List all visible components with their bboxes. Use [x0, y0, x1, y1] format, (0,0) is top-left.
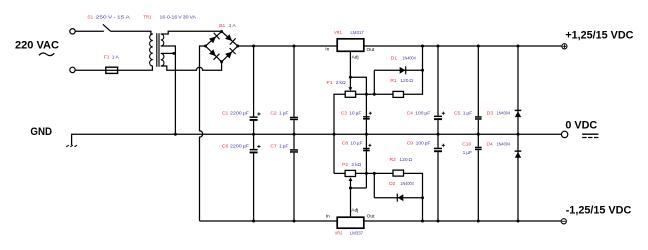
pin label Out (VR2) [367, 214, 375, 220]
terminal: 220 VAC line input N [70, 67, 75, 72]
label R2 120ohm [390, 157, 413, 163]
capacitor C7 [290, 134, 298, 221]
svg-text:D1: D1 [391, 56, 398, 62]
wire: VR1 Adj stem [349, 51, 351, 77]
capacitor C6 [250, 134, 261, 221]
svg-text:C3: C3 [341, 110, 348, 116]
wire: positive rail VR1 Out to + terminal [364, 45, 562, 47]
svg-text:1 µF: 1 µF [463, 150, 473, 156]
svg-text:Out: Out [367, 214, 375, 220]
svg-text:220 VAC: 220 VAC [15, 39, 59, 51]
svg-text:100 µF: 100 µF [415, 111, 430, 117]
resistor R2 [393, 170, 404, 176]
fuse F1 [106, 67, 118, 73]
label B1 1A [219, 23, 236, 29]
svg-text:TR1: TR1 [143, 15, 151, 21]
svg-text:D2: D2 [389, 181, 396, 187]
wire: bridge minus output down to negative rail (hop over GND rail) [200, 46, 206, 221]
transformer TR1 [150, 33, 164, 67]
label P2 2k [342, 162, 361, 168]
junction: C1 top [252, 45, 255, 48]
diode D2 [397, 194, 403, 202]
svg-text:Adj: Adj [351, 207, 358, 213]
junction: C9 bottom [437, 220, 440, 223]
svg-text:2 kΩ: 2 kΩ [351, 162, 361, 168]
junction: D1/R1 top [421, 45, 424, 48]
op-amp-style regulator VR2 LM337 [337, 217, 364, 228]
junction: C2/C7 at GND [293, 133, 296, 136]
pin label In (VR2) [326, 214, 330, 220]
pin label Adj (VR1) [352, 55, 359, 61]
capacitor C1 [250, 46, 261, 134]
op-amp-style regulator VR1 LM317 [337, 39, 364, 52]
junction: C1/C6 at GND [252, 133, 255, 136]
svg-text:S1: S1 [87, 15, 93, 21]
terminal: 220 VAC line input L [70, 29, 75, 34]
wire: negative rail VR2 Out to - terminal [364, 220, 561, 222]
junction: C3/C8 at GND [365, 133, 368, 136]
svg-text:Out: Out [367, 47, 375, 53]
label R1 120ohm [390, 78, 413, 84]
svg-text:2200 µF: 2200 µF [230, 143, 249, 149]
diode D1 [400, 66, 406, 74]
label C3 10uF [341, 110, 362, 116]
potentiometer P2 [345, 170, 355, 188]
svg-text:10 µF: 10 µF [349, 110, 361, 116]
svg-text:C1: C1 [222, 110, 229, 116]
junction: C5/C10 at GND [477, 133, 480, 136]
svg-text:C9: C9 [407, 141, 414, 147]
svg-text:R1: R1 [390, 78, 397, 84]
junction: C5 top [477, 45, 480, 48]
capacitor C3 [363, 112, 372, 120]
svg-text:In: In [325, 47, 329, 53]
junction: D3/D4 at GND [517, 133, 520, 136]
junction: D1 cathode node [421, 69, 424, 72]
wire: P2 right to R2 left [356, 172, 394, 174]
capacitor C5 [475, 46, 482, 134]
label D2 1N4004 [389, 181, 414, 187]
svg-text:1N4004: 1N4004 [400, 181, 414, 187]
junction: D4 bottom [517, 220, 520, 223]
svg-text:16-0-16 V 30 VA: 16-0-16 V 30 VA [160, 15, 197, 21]
svg-text:1N4004: 1N4004 [402, 56, 416, 62]
label S1 250V-15A [87, 15, 131, 21]
dc symbol [582, 134, 598, 137]
capacitor C9 [434, 134, 445, 221]
wire: center tap to GND rail [161, 46, 176, 134]
text 0 VDC [565, 119, 597, 131]
svg-text:1 µF: 1 µF [463, 110, 473, 116]
wire: VR2 adj stem [350, 188, 352, 217]
svg-text:D3: D3 [487, 110, 494, 116]
svg-text:C8: C8 [342, 141, 349, 147]
wire: switch to transformer primary top [111, 31, 153, 34]
svg-text:250 V - 15 A: 250 V - 15 A [96, 15, 131, 21]
svg-text:10 µF: 10 µF [350, 141, 362, 147]
wire: secondary top to bridge AC1 [161, 31, 222, 34]
svg-text:C6: C6 [222, 143, 229, 149]
label D1 1N4004 [391, 56, 416, 62]
label C5 1uF [454, 110, 472, 116]
label C4 100uF [407, 111, 431, 117]
svg-text:F1: F1 [104, 55, 110, 61]
junction: P1 wiper-right node [365, 93, 368, 96]
svg-text:0 VDC: 0 VDC [565, 119, 597, 131]
potentiometer P1 [345, 77, 355, 97]
wire: R2 right down to negative rail [404, 173, 423, 221]
junction: C2 top [293, 45, 296, 48]
junction: C7 bottom [293, 220, 296, 223]
junction: R2 left node [373, 172, 376, 175]
junction: VR2 adj node [349, 187, 352, 190]
label F1 1A [104, 55, 120, 61]
svg-text:1 A: 1 A [112, 55, 120, 61]
svg-text:C7: C7 [270, 143, 277, 149]
text -1,25/15 VDC [566, 205, 632, 217]
label VR1 LM317 [334, 30, 364, 36]
wire: D1 rail [374, 69, 422, 71]
junction: C4 top [437, 45, 440, 48]
wire: P1 left to GND column [334, 94, 345, 173]
capacitor C10 [475, 134, 482, 221]
diode D4 [515, 134, 522, 221]
svg-text:LM317: LM317 [351, 30, 364, 36]
svg-text:Adj: Adj [352, 55, 359, 61]
svg-text:120 Ω: 120 Ω [400, 78, 413, 84]
svg-text:LM337: LM337 [350, 230, 363, 236]
wire: GND rail [72, 133, 562, 135]
terminal: +1,25/15 VDC output [562, 44, 567, 49]
svg-text:D4: D4 [487, 142, 494, 148]
label D4 1N4004 [487, 142, 511, 148]
wire: fuse to transformer primary bottom [118, 66, 153, 70]
label VR2 LM337 [335, 230, 364, 236]
switch S1 [103, 24, 111, 31]
ac source tilde [39, 53, 54, 56]
wire: adj node right and down to C3 column [350, 77, 366, 188]
svg-text:GND: GND [30, 126, 52, 138]
svg-text:B1: B1 [219, 23, 225, 29]
svg-text:P1: P1 [327, 80, 333, 86]
junction: C10 bottom [477, 220, 480, 223]
wire: R1 right up to positive rail [404, 46, 423, 94]
svg-text:VR1: VR1 [334, 30, 342, 36]
capacitor C2 [290, 46, 298, 134]
wire: R1 node up to D1 anode [373, 70, 375, 94]
svg-text:1 µF: 1 µF [279, 143, 289, 149]
junction: C4/C9 at GND [437, 133, 440, 136]
svg-text:1N4004: 1N4004 [497, 110, 511, 116]
junction: center tap at GND [174, 133, 177, 136]
svg-text:1 A: 1 A [229, 23, 237, 29]
capacitor C4 [434, 46, 445, 134]
wire: positive rail bridge to VR1 In [238, 45, 337, 47]
wire: D2 rail [374, 197, 422, 199]
label C10 1uF [462, 142, 472, 157]
svg-text:C10: C10 [462, 142, 471, 148]
resistor R1 [393, 91, 404, 97]
svg-text:1N4004: 1N4004 [497, 142, 511, 148]
label C2 1uF [270, 110, 288, 116]
wire: negative rail to VR2 In [200, 220, 338, 222]
svg-text:P2: P2 [342, 162, 348, 168]
text GND [30, 126, 52, 138]
svg-text:-1,25/15 VDC: -1,25/15 VDC [566, 205, 632, 217]
svg-text:C5: C5 [454, 110, 461, 116]
text +1,25/15 VDC [565, 29, 633, 41]
svg-text:In: In [326, 214, 330, 220]
wire: L terminal to switch [75, 30, 104, 32]
pin label In (VR1) [325, 47, 329, 53]
text 220 VAC [15, 39, 59, 51]
wire: secondary bottom to bridge AC2 (hop over minus wire) [161, 62, 222, 71]
wire: P2 left to GND column [334, 172, 345, 174]
label C1 2200uF [222, 110, 249, 116]
junction: D3 top [517, 45, 520, 48]
wire: N terminal to fuse [75, 69, 106, 71]
pin label Out (VR1) [367, 47, 375, 53]
capacitor C8 [363, 144, 371, 152]
svg-text:+1,25/15 VDC: +1,25/15 VDC [565, 29, 633, 41]
svg-text:C4: C4 [407, 111, 414, 117]
pin label Adj (VR2) [351, 207, 358, 213]
junction: P1/P2 at GND [333, 133, 336, 136]
wire: adj node right (lower) [351, 187, 367, 189]
svg-text:2200 µF: 2200 µF [230, 110, 249, 116]
label D3 1N4004 [487, 110, 511, 116]
svg-text:100 µF: 100 µF [416, 141, 431, 147]
junction: P2 wiper-right node [365, 172, 368, 175]
junction: R1 left node [373, 93, 376, 96]
svg-text:2 kΩ: 2 kΩ [336, 80, 346, 86]
diode D3 [515, 46, 522, 134]
junction: center tap join [172, 52, 175, 55]
junction: VR1 adj node [349, 76, 352, 79]
label C9 100uF [407, 141, 431, 147]
label C6 2200uF [222, 143, 249, 149]
label C7 1uF [270, 143, 288, 149]
svg-text:C2: C2 [270, 110, 277, 116]
terminal: -1,25/15 VDC output [561, 219, 566, 224]
svg-text:VR2: VR2 [335, 230, 343, 236]
junction: C6 bottom [252, 220, 255, 223]
junction: D2 anode node [421, 196, 424, 199]
svg-text:120 Ω: 120 Ω [399, 157, 412, 163]
ground symbol [66, 134, 77, 147]
label P1 2k [327, 80, 346, 86]
wire: P1 right to R1 left [356, 93, 393, 95]
wire: R2 node down to D2 [373, 173, 375, 197]
label C8 10uF [342, 141, 363, 147]
bridge rectifier B1 [204, 30, 239, 63]
label TR1 16-0-16V 30VA [143, 15, 196, 21]
terminal: 0 VDC output [561, 131, 567, 137]
junction: D2/R2 bottom [421, 220, 424, 223]
svg-text:1 µF: 1 µF [279, 110, 289, 116]
svg-text:R2: R2 [390, 157, 397, 163]
